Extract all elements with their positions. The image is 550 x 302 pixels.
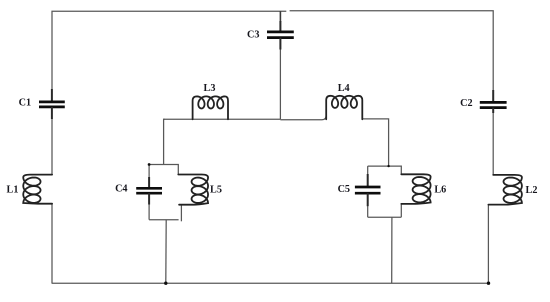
capacitor C4: [148, 177, 150, 188]
wire middle rail left segment: [193, 118, 281, 120]
wire tank1 down to bottom rail: [165, 220, 167, 284]
node tank2 top junction: [387, 165, 389, 167]
svg-text:L2: L2: [526, 185, 538, 196]
capacitor C5: [367, 174, 369, 187]
wire tank2 L6 bottom stub: [400, 204, 402, 217]
node bottom rail tank1 junction: [164, 282, 167, 285]
wire tank2 C5 branch bottom: [367, 204, 369, 217]
svg-text:L5: L5: [210, 184, 222, 195]
svg-text:L1: L1: [7, 185, 19, 196]
wire bottom rail: [52, 282, 489, 284]
svg-text:C5: C5: [338, 184, 350, 195]
wire C2 to L2: [492, 113, 494, 175]
wire tank1 C4 branch top: [148, 165, 150, 179]
inductor L2: [488, 175, 522, 205]
inductor L3: [193, 96, 228, 119]
wire tank1 bottom rail: [149, 219, 179, 221]
capacitor C3: [279, 21, 281, 32]
svg-text:C3: C3: [247, 30, 259, 41]
wire tank2 C5 branch top: [367, 166, 369, 178]
node bottom rail right end junction: [487, 282, 490, 285]
inductor L6: [401, 174, 430, 204]
wire left drop to tank1: [164, 119, 165, 164]
wire L4 right to drop: [362, 119, 388, 166]
wire middle rail right segment: [280, 115, 326, 120]
svg-text:L6: L6: [434, 185, 446, 196]
wire tank2 top rail: [368, 166, 402, 174]
svg-text:C4: C4: [115, 184, 127, 195]
capacitor C2: [492, 90, 494, 102]
wire tank2 bottom rail: [368, 216, 402, 218]
inductor L1: [23, 175, 52, 204]
svg-text:C2: C2: [460, 98, 472, 109]
wire tank1 L5 bottom stub: [180, 205, 182, 222]
svg-text:C1: C1: [19, 98, 31, 109]
wire tank1 top rail: [149, 165, 178, 175]
svg-text:L4: L4: [338, 83, 350, 94]
wire L2 bottom to rail: [487, 205, 489, 284]
capacitor C1: [51, 89, 53, 102]
wire L1 to bottom rail: [51, 204, 53, 284]
wire top rail right of C3: [290, 11, 494, 90]
wire tank1 C4 branch bottom: [148, 204, 150, 220]
wire top rail left of C3: [52, 11, 286, 89]
node tank1 top junction: [148, 163, 151, 166]
wire C3 bottom to middle rail: [279, 49, 281, 119]
inductor L5: [178, 175, 208, 205]
wire C3 stub to top rail: [279, 11, 281, 22]
wire C1 to L1: [51, 118, 53, 175]
wire tank2 down to bottom rail: [391, 217, 393, 283]
inductor L4: [326, 96, 362, 120]
svg-text:L3: L3: [204, 83, 216, 94]
